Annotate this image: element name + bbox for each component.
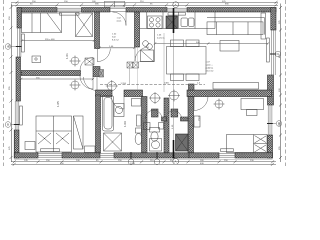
arched opening WC bbox=[145, 110, 162, 118]
door kitchen bbox=[135, 47, 149, 61]
marker circle bottom 2 bbox=[154, 159, 160, 165]
dashed boundary right bbox=[285, 0, 287, 166]
wall W5 hall/kitchen bbox=[135, 12, 140, 47]
dim line bedroom2 bbox=[21, 78, 93, 80]
right wall top segment bbox=[271, 8, 276, 31]
top wall segment 3 bbox=[126, 8, 167, 13]
axis circle right 1 bbox=[275, 51, 281, 57]
dishwasher bbox=[141, 50, 154, 62]
marker circle bottom 1 bbox=[128, 159, 134, 165]
entrance steps bbox=[104, 1, 125, 7]
bottom wall segment 4 bbox=[235, 153, 273, 158]
radiator sofa right bbox=[261, 13, 266, 39]
radiator left window2 bbox=[20, 106, 23, 125]
radiator bottom window1 bbox=[41, 149, 60, 152]
shower bbox=[104, 133, 122, 151]
coffee table bbox=[220, 41, 239, 52]
wall W1 bedroom1/hall bbox=[95, 12, 100, 49]
dim ticks bottom bbox=[13, 160, 274, 163]
interior dim end ticks bbox=[20, 39, 269, 80]
ceiling point hall bbox=[99, 62, 139, 92]
bottom dim line outer bbox=[11, 163, 276, 165]
top wall segment 1 bbox=[17, 8, 57, 13]
radiator top window1 bbox=[60, 13, 80, 16]
right dim line bbox=[280, 4, 282, 163]
bottom wall segment 1 bbox=[14, 153, 38, 158]
svg-text:jadalnia: jadalnia bbox=[205, 68, 214, 70]
axis circle left 2 bbox=[5, 122, 11, 128]
pier at W1/W2 junction bbox=[93, 67, 100, 77]
dining table bbox=[167, 47, 207, 75]
desk bedroom4 bbox=[241, 99, 264, 110]
sink kitchen bbox=[181, 18, 188, 27]
svg-text:A: A bbox=[175, 160, 177, 164]
svg-text:1.08: 1.08 bbox=[192, 124, 195, 129]
window top 2 bbox=[167, 8, 187, 11]
svg-text:hall: hall bbox=[112, 37, 116, 39]
ceiling point bedroom1 bbox=[71, 57, 79, 65]
door bedroom2 lower arc bbox=[80, 76, 93, 90]
pier WC door jamb bbox=[152, 109, 159, 117]
wall stub above W6 bbox=[189, 84, 195, 90]
top wall segment 2 bbox=[82, 8, 111, 13]
window bottom 1 bbox=[38, 153, 62, 157]
left wall lower segment bbox=[14, 130, 19, 158]
window right lower bbox=[268, 105, 272, 135]
svg-text:1.05: 1.05 bbox=[56, 101, 60, 107]
arch wall band segment 1 bbox=[162, 117, 167, 121]
window left lower bbox=[15, 101, 19, 130]
svg-text:wiatr.: wiatr. bbox=[117, 20, 122, 23]
kitchen counter top run bbox=[140, 12, 216, 29]
svg-text:32,5 m2: 32,5 m2 bbox=[206, 71, 215, 73]
svg-text:A: A bbox=[7, 45, 9, 49]
ceiling point bedroom3 bbox=[71, 81, 79, 89]
dim line living bbox=[155, 43, 268, 45]
wall W4 bathroom top bbox=[96, 90, 113, 97]
wardrobe bedroom1 bbox=[76, 13, 93, 37]
chair 4 bbox=[186, 74, 199, 81]
door bedroom1 from hall bbox=[97, 49, 110, 62]
dashed boundary left bbox=[3, 0, 5, 166]
axis circle left 1 bbox=[5, 44, 11, 50]
toilet bathroom bbox=[136, 128, 142, 133]
ceiling point bedroom4 bbox=[215, 100, 223, 108]
window bottom bathroom bbox=[100, 153, 114, 157]
wall W3 bedroom3/bathroom bbox=[96, 95, 101, 153]
sideboard living bbox=[213, 83, 259, 90]
door bedroom3 bbox=[84, 77, 98, 91]
axis tick bottom 1 bbox=[130, 152, 132, 160]
door bedroom4 bbox=[194, 97, 208, 111]
chair 2 bbox=[186, 40, 199, 47]
bed bedroom3 bbox=[36, 116, 72, 152]
window bottom 2 bbox=[219, 153, 235, 157]
svg-text:1.01: 1.01 bbox=[65, 53, 69, 59]
shaft box hall pier bbox=[99, 70, 104, 78]
sofa bbox=[207, 22, 263, 35]
pier closet door jamb bbox=[171, 109, 178, 117]
door bedroom2 upper arc bbox=[80, 58, 93, 71]
radiator top window2 bbox=[168, 13, 186, 16]
entrance door top bbox=[113, 12, 127, 26]
arch wall band segment 2 bbox=[181, 117, 189, 121]
shaft kitchen dark box bbox=[166, 16, 178, 29]
right wall lower segment bbox=[268, 135, 273, 158]
kitchen counter left run bbox=[140, 29, 155, 62]
right wall mid segment bbox=[268, 75, 274, 105]
wall W2 bedroom1/bedroom2 bbox=[21, 71, 80, 76]
axis tick bottom 2 bbox=[156, 152, 158, 160]
dim ticks left bbox=[10, 6, 13, 159]
wall W6 living room bottom bbox=[187, 90, 272, 97]
wall bathroom/WC bbox=[142, 97, 148, 153]
window left upper bbox=[18, 28, 21, 57]
dim line hall bbox=[100, 47, 135, 49]
dim line corridor bbox=[100, 84, 205, 86]
washbasin bathroom bbox=[114, 104, 124, 117]
radiator bottom window2 bbox=[221, 149, 234, 152]
dim ticks right bbox=[279, 6, 282, 159]
bed bedroom1 bbox=[22, 13, 62, 33]
dim line bedroom1 bbox=[22, 40, 94, 42]
toilet WC bbox=[150, 128, 160, 133]
svg-text:15,2: 15,2 bbox=[198, 116, 201, 121]
cabinet bathroom bbox=[132, 99, 142, 107]
bed bedroom4 bbox=[227, 135, 268, 153]
hall dim vertical line bbox=[129, 62, 131, 85]
bottom dim line inner bbox=[11, 161, 276, 163]
svg-text:355 x 480: 355 x 480 bbox=[45, 39, 55, 41]
svg-text:B: B bbox=[7, 123, 9, 127]
mat boxes kitchen entry bbox=[127, 62, 133, 68]
section marker top circle bbox=[173, 2, 179, 8]
wall WC/closet bbox=[164, 98, 169, 153]
top dim line outer bbox=[11, 1, 278, 3]
window right living bbox=[272, 30, 276, 75]
section marker bottom circle bbox=[173, 159, 179, 165]
chair 3 bbox=[171, 74, 184, 81]
thin floor boundary line kitchen/dining bbox=[163, 33, 165, 92]
dresser bedroom1 bbox=[32, 56, 41, 63]
chair 1 bbox=[171, 40, 184, 47]
radiator bathroom bbox=[137, 115, 142, 126]
door bathroom bbox=[112, 97, 125, 110]
left wall upper segment bbox=[17, 8, 21, 29]
wall closet/bedroom4 bbox=[188, 97, 194, 153]
svg-text:A: A bbox=[175, 3, 177, 7]
wardrobe bedroom3 bbox=[74, 116, 84, 149]
plinth line below bottom wall bbox=[14, 158, 272, 160]
dresser bedroom3 bbox=[85, 146, 96, 153]
svg-text:1.09: 1.09 bbox=[123, 121, 127, 127]
svg-text:1,155: 1,155 bbox=[121, 83, 127, 85]
ceiling point closet bbox=[170, 91, 179, 100]
top dim line inner bbox=[11, 4, 278, 6]
boundary line hall/dining bbox=[137, 47, 139, 90]
bottom wall segment 3 bbox=[189, 153, 219, 158]
bottom wall segment 2 bbox=[62, 153, 100, 158]
ceiling point WC bbox=[151, 94, 160, 103]
washing machine WC bbox=[150, 139, 162, 152]
dim ticks top bbox=[10, 1, 283, 166]
radiator right window bbox=[267, 38, 270, 62]
left wall mid segment bbox=[16, 57, 21, 101]
svg-text:8,5 m2: 8,5 m2 bbox=[112, 40, 119, 42]
radiator left window1 bbox=[22, 34, 25, 52]
window top 1 bbox=[57, 8, 82, 11]
electrical panel bbox=[85, 58, 94, 65]
arched opening closet bbox=[166, 111, 182, 119]
bathtub bbox=[103, 96, 114, 132]
shaft closet dark box bbox=[176, 134, 189, 151]
svg-text:1296: 1296 bbox=[130, 163, 136, 165]
kitchen sink2 bbox=[143, 41, 149, 47]
dresser bedroom4 bbox=[194, 116, 200, 127]
left dim line bbox=[11, 4, 13, 163]
wall W4b bathroom top right piece bbox=[124, 90, 143, 97]
entrance threshold lines bbox=[110, 9, 126, 12]
basin WC corner bbox=[144, 123, 151, 130]
svg-text:1465: 1465 bbox=[164, 82, 170, 84]
nightstand bedroom3 bbox=[25, 142, 35, 150]
stove 4 burners bbox=[148, 16, 163, 29]
axis circle right 2 bbox=[276, 121, 282, 127]
top wall segment 4 bbox=[187, 8, 276, 13]
svg-text:salon +: salon + bbox=[206, 65, 214, 67]
section line vertical bbox=[173, 8, 175, 33]
